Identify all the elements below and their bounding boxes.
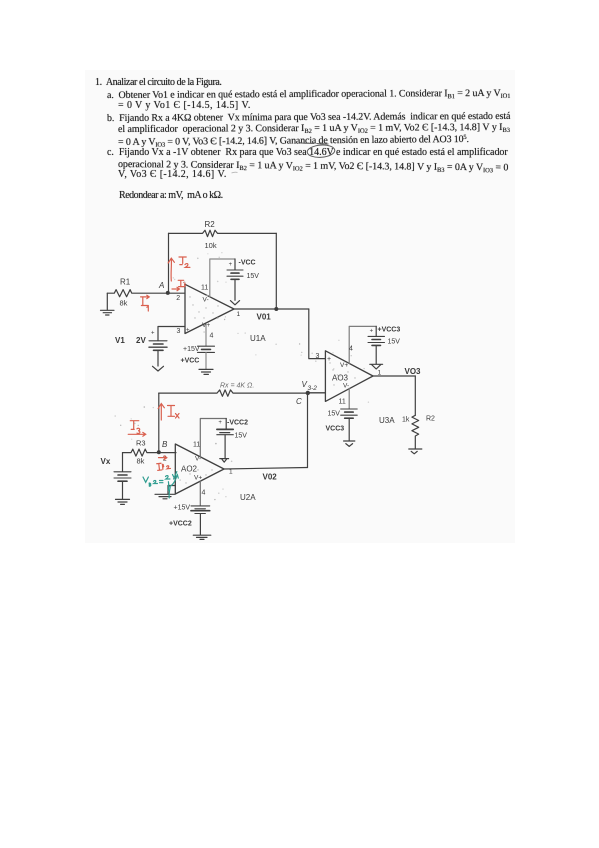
svg-text:+: + xyxy=(186,328,190,334)
svg-text:+: + xyxy=(151,331,155,337)
svg-text:+: + xyxy=(229,262,233,268)
svg-text:4: 4 xyxy=(210,333,214,340)
svg-text:-VCC2: -VCC2 xyxy=(227,420,248,427)
svg-text:V-: V- xyxy=(343,383,349,390)
svg-text:B: B xyxy=(162,440,168,449)
svg-text:15V: 15V xyxy=(235,432,248,439)
svg-text:R2: R2 xyxy=(205,220,216,229)
svg-text:3: 3 xyxy=(177,328,181,335)
svg-text:R3: R3 xyxy=(136,439,146,448)
svg-text:R2: R2 xyxy=(426,416,435,423)
svg-text:1: 1 xyxy=(229,469,233,476)
svg-text:V01: V01 xyxy=(257,313,272,322)
svg-text:+VCC2: +VCC2 xyxy=(169,520,192,527)
svg-text:V02: V02 xyxy=(263,473,278,482)
svg-text:15V: 15V xyxy=(247,273,260,280)
svg-text:V+: V+ xyxy=(194,475,202,482)
svg-text:8k: 8k xyxy=(137,457,145,466)
svg-text:Rx = 4K Ω.: Rx = 4K Ω. xyxy=(220,383,254,390)
svg-text:Vx: Vx xyxy=(101,457,111,466)
svg-text:U3A: U3A xyxy=(379,416,395,425)
svg-text:-VCC: -VCC xyxy=(239,260,256,267)
svg-text:3-2: 3-2 xyxy=(308,385,318,392)
svg-text:+15V: +15V xyxy=(183,346,200,353)
svg-text:V+: V+ xyxy=(202,322,210,329)
svg-text:2: 2 xyxy=(176,295,180,302)
svg-text:+: + xyxy=(327,356,331,363)
svg-text:V-: V- xyxy=(203,297,209,304)
svg-text:+: + xyxy=(218,420,222,426)
svg-text:15V: 15V xyxy=(388,339,401,346)
svg-text:11: 11 xyxy=(201,285,208,292)
svg-text:C: C xyxy=(296,397,302,406)
svg-text:4: 4 xyxy=(349,346,353,353)
svg-text:11: 11 xyxy=(193,442,200,449)
svg-text:+VCC: +VCC xyxy=(181,358,200,365)
svg-text:+: + xyxy=(370,329,374,335)
svg-text:11: 11 xyxy=(339,399,346,406)
svg-text:1: 1 xyxy=(237,311,241,318)
svg-text:1k: 1k xyxy=(402,417,410,424)
svg-text:AO3: AO3 xyxy=(332,374,349,383)
svg-text:4: 4 xyxy=(202,490,206,497)
svg-text:U1A: U1A xyxy=(250,334,266,343)
svg-text:3: 3 xyxy=(316,353,320,360)
svg-text:10k: 10k xyxy=(205,241,217,250)
svg-text:VO3: VO3 xyxy=(405,367,422,376)
svg-text:1: 1 xyxy=(378,370,382,377)
svg-text:V1: V1 xyxy=(115,336,125,345)
svg-text:U2A: U2A xyxy=(240,493,256,502)
svg-text:R1: R1 xyxy=(120,278,131,287)
svg-text:8k: 8k xyxy=(120,299,128,308)
svg-text:15V: 15V xyxy=(328,411,341,418)
svg-text:A: A xyxy=(158,281,164,290)
svg-text:+VCC3: +VCC3 xyxy=(378,327,401,334)
svg-text:+15V: +15V xyxy=(174,505,191,512)
svg-text:V-: V- xyxy=(195,456,201,463)
svg-text:2V: 2V xyxy=(136,336,146,345)
svg-text:VCC3: VCC3 xyxy=(326,426,345,433)
